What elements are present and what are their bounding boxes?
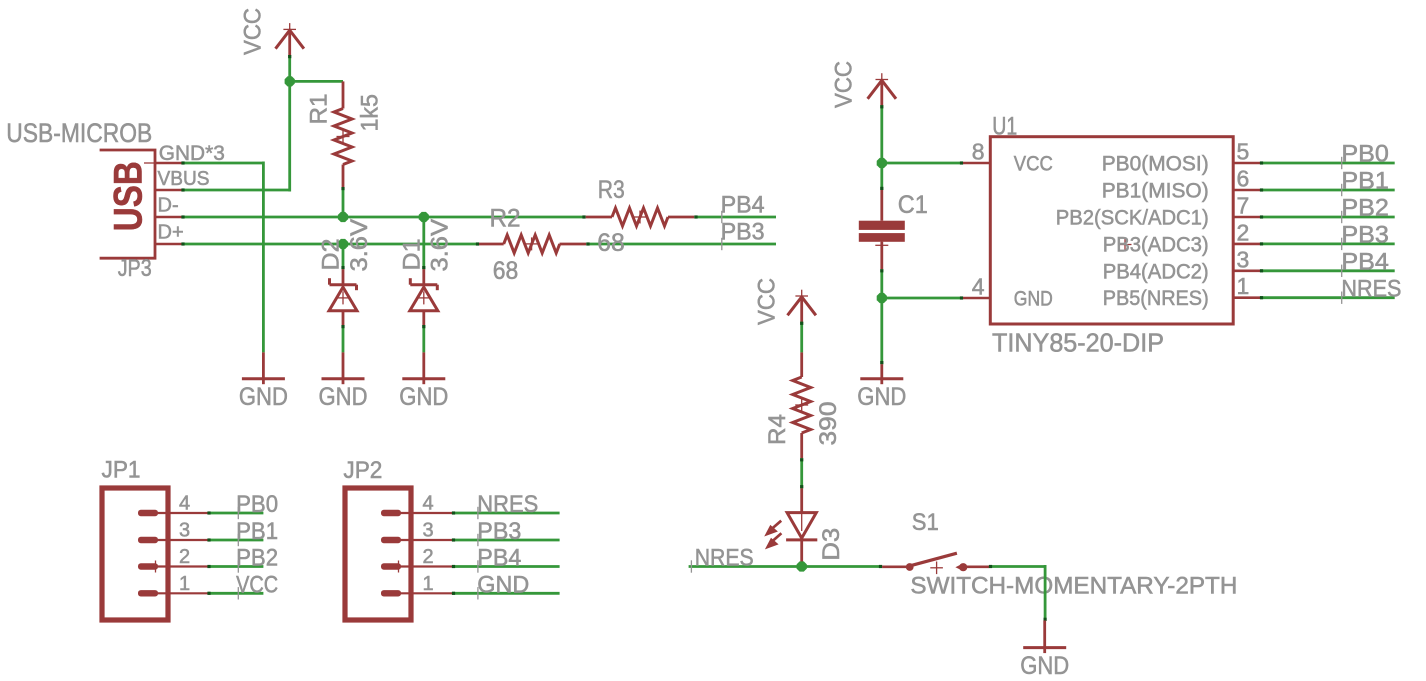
- supply VCC (above R4): [754, 278, 816, 325]
- svg-text:3: 3: [179, 520, 190, 542]
- svg-text:PB0(MOSI): PB0(MOSI): [1102, 153, 1209, 176]
- svg-text:VCC: VCC: [831, 61, 858, 108]
- label 1k5: [356, 94, 383, 132]
- U1 pin 7 stub: [1233, 193, 1260, 219]
- svg-text:D+: D+: [158, 222, 184, 244]
- JP1 pin 1: [138, 573, 208, 597]
- wire net PB3 (right): [1260, 242, 1395, 245]
- wire C1 bottom to GND: [880, 298, 883, 364]
- JP3 origin cross: [144, 162, 155, 164]
- svg-text:1k5: 1k5: [356, 94, 383, 132]
- R4 origin cross: [795, 399, 808, 412]
- U1 pin name PB0(MOSI): [1102, 153, 1209, 176]
- svg-text:PB1: PB1: [1341, 168, 1389, 195]
- label R1: [305, 94, 332, 125]
- svg-text:NRES: NRES: [477, 491, 538, 518]
- wire JP1 PB1: [207, 538, 263, 541]
- resistor R3: [586, 208, 695, 226]
- svg-text:PB3: PB3: [1341, 222, 1389, 249]
- U1 pin 5 stub: [1233, 139, 1260, 165]
- pin GND*3 of JP3: [155, 142, 225, 165]
- svg-text:USB-MICROB: USB-MICROB: [6, 118, 152, 148]
- wire C1 bottom to pin 4: [882, 296, 963, 299]
- svg-text:VCC: VCC: [754, 278, 781, 325]
- JP2 pin 4: [381, 493, 452, 517]
- svg-text:4: 4: [422, 493, 433, 515]
- net label PB2 (right): [1341, 195, 1389, 224]
- wire D+ to D2: [341, 244, 344, 269]
- svg-text:PB3: PB3: [721, 219, 765, 246]
- U1 pin 2 stub: [1233, 219, 1260, 245]
- svg-text:SWITCH-MOMENTARY-2PTH: SWITCH-MOMENTARY-2PTH: [910, 572, 1237, 599]
- svg-text:D2: D2: [317, 239, 344, 271]
- U1 origin cross: [1119, 238, 1132, 251]
- net label PB3 (JP2): [477, 518, 521, 546]
- svg-text:GND: GND: [399, 383, 448, 411]
- net label PB4 (mid): [721, 192, 765, 224]
- wire JP1 PB2: [207, 565, 263, 568]
- wire S1 to GND: [989, 565, 1047, 621]
- svg-text:4: 4: [972, 273, 985, 299]
- connector JP2 body: [343, 457, 411, 620]
- svg-text:GND: GND: [319, 383, 368, 411]
- net label NRES (JP2): [477, 491, 538, 519]
- svg-text:TINY85-20-DIP: TINY85-20-DIP: [992, 328, 1164, 358]
- svg-text:JP2: JP2: [343, 457, 382, 484]
- net label GND (JP2): [477, 572, 529, 600]
- svg-text:6: 6: [1237, 166, 1250, 192]
- svg-text:1: 1: [179, 573, 190, 595]
- diode D3 LED: [786, 488, 817, 566]
- ground GND (under GND*3): [239, 352, 288, 411]
- svg-text:1: 1: [1237, 273, 1250, 299]
- wire C1 top to pin 8: [882, 161, 963, 164]
- svg-text:GND: GND: [857, 383, 906, 411]
- svg-text:GND: GND: [477, 572, 529, 599]
- U1 pin name PB4(ADC2): [1103, 260, 1209, 283]
- node D-/R1 junction: [338, 212, 348, 222]
- U1 pin name GND: [1014, 288, 1053, 311]
- wire JP2 PB4: [452, 565, 560, 568]
- pin D- of JP3: [155, 195, 182, 217]
- label 3.6V (D1): [426, 219, 453, 272]
- svg-text:PB1: PB1: [236, 518, 278, 545]
- U1 pin 6 stub: [1233, 166, 1260, 192]
- net label PB0 (JP1): [236, 491, 278, 519]
- net label PB1 (right): [1341, 168, 1389, 197]
- node C1 bottom junction: [877, 293, 887, 303]
- wire VCC to C1 junction: [880, 105, 883, 163]
- svg-text:7: 7: [1237, 193, 1250, 219]
- net label VCC (JP1): [236, 572, 278, 600]
- wire VCC to R4: [800, 322, 803, 353]
- net label PB4 (right): [1341, 248, 1389, 277]
- capacitor C1: [859, 190, 905, 269]
- wire NRES net: [689, 565, 883, 568]
- svg-text:PB4: PB4: [1341, 248, 1389, 275]
- svg-text:5: 5: [1237, 139, 1250, 165]
- svg-text:U1: U1: [992, 113, 1017, 141]
- wire GND*3 to GND: [181, 161, 263, 352]
- svg-text:68: 68: [493, 257, 519, 285]
- JP1 pin 3: [138, 520, 208, 544]
- net label PB0 (right): [1341, 141, 1389, 170]
- svg-text:D1: D1: [399, 239, 426, 271]
- svg-text:VCC: VCC: [1014, 153, 1053, 176]
- svg-text:USB: USB: [107, 161, 151, 231]
- label D3: [818, 528, 845, 561]
- R1 origin cross: [337, 130, 350, 143]
- net label PB1 (JP1): [236, 518, 278, 546]
- label TINY85-20-DIP: [992, 328, 1164, 358]
- label JP3: [118, 255, 152, 282]
- op-amp U1 IC body TINY85: [990, 137, 1233, 324]
- label R3: [598, 176, 625, 204]
- supply VCC (top left): [239, 8, 304, 56]
- svg-text:VCC: VCC: [236, 572, 278, 599]
- net label PB3 (mid): [721, 219, 765, 251]
- R3 origin cross: [634, 211, 647, 224]
- svg-text:8: 8: [972, 139, 985, 165]
- label 3.6V (D2): [346, 219, 373, 272]
- node junction VCC/VBUS/R1: [285, 76, 295, 86]
- ground GND (under D1): [399, 352, 448, 411]
- svg-text:VBUS: VBUS: [158, 168, 210, 190]
- resistor R4: [793, 352, 811, 458]
- ground GND (under C1): [857, 364, 906, 411]
- label S1: [912, 509, 939, 536]
- connector JP3 USB-MICROB body: [100, 150, 155, 258]
- wire JP2 GND: [452, 592, 560, 595]
- wire D- to D1: [422, 217, 425, 269]
- svg-text:PB2: PB2: [236, 545, 278, 572]
- svg-text:PB5(NRES): PB5(NRES): [1103, 287, 1209, 310]
- wire net PB2 (right): [1260, 215, 1395, 218]
- label SWITCH-MOMENTARY-2PTH: [910, 572, 1237, 599]
- label R2: [490, 205, 521, 233]
- wire D+ net: [181, 242, 479, 245]
- wire D2 to GND: [341, 325, 344, 352]
- net label PB3 (right): [1341, 222, 1389, 251]
- svg-text:3: 3: [1237, 246, 1250, 272]
- U1 pin name PB1(MISO): [1102, 180, 1209, 203]
- node D3/NRES junction: [797, 561, 807, 571]
- svg-text:VCC: VCC: [239, 8, 266, 55]
- wire JP2 NRES: [452, 511, 560, 514]
- wire net NRES (right): [1260, 296, 1395, 299]
- wire C1 bottom to junction: [880, 269, 883, 298]
- svg-text:GND*3: GND*3: [159, 142, 225, 165]
- connector JP1 body: [102, 457, 169, 621]
- svg-text:D-: D-: [158, 195, 179, 217]
- label 390: [815, 402, 842, 446]
- U1 pin name PB5(NRES): [1103, 287, 1209, 310]
- label USB-MICROB: [6, 118, 152, 148]
- LED arrow 1: [764, 521, 781, 537]
- svg-text:PB1(MISO): PB1(MISO): [1102, 180, 1209, 203]
- diode D2 zener: [329, 269, 357, 325]
- JP2 pin 2: [381, 546, 452, 573]
- svg-text:D3: D3: [818, 528, 845, 561]
- node C1 top junction: [877, 158, 887, 168]
- JP1 pin 2: [138, 546, 208, 573]
- label 68 (R2): [493, 257, 519, 285]
- wire net PB4 (right): [1260, 269, 1395, 272]
- wire JP1 VCC: [207, 592, 263, 595]
- JP2 pin 3: [381, 520, 452, 544]
- svg-text:PB4: PB4: [721, 192, 765, 219]
- svg-text:JP3: JP3: [118, 255, 152, 282]
- U1 pin name PB3(ADC3): [1103, 233, 1209, 256]
- net label PB2 (JP1): [236, 545, 278, 573]
- wire R2 to PB3 label: [586, 242, 776, 245]
- svg-text:JP1: JP1: [102, 457, 141, 484]
- svg-text:NRES: NRES: [695, 545, 754, 572]
- label D1: [399, 239, 426, 271]
- LED arrow 2: [765, 533, 782, 549]
- node D+/D2 junction: [338, 239, 348, 249]
- ground GND (under D2): [319, 352, 368, 411]
- svg-text:R4: R4: [764, 414, 791, 445]
- svg-text:GND: GND: [239, 383, 288, 411]
- wire junction to R1: [290, 80, 343, 83]
- svg-text:R3: R3: [598, 176, 625, 204]
- svg-text:GND: GND: [1020, 652, 1069, 680]
- svg-text:R2: R2: [490, 205, 521, 233]
- node D-/D1 junction: [419, 212, 429, 222]
- svg-text:2: 2: [422, 546, 433, 568]
- U1 pin name PB2(SCK/ADC1): [1056, 207, 1209, 230]
- svg-text:PB3: PB3: [477, 518, 521, 545]
- svg-text:S1: S1: [912, 509, 939, 536]
- svg-text:68: 68: [597, 229, 625, 257]
- svg-text:NRES: NRES: [1341, 275, 1401, 302]
- wire JP1 PB0: [207, 511, 263, 514]
- svg-text:PB0: PB0: [236, 491, 278, 518]
- net label PB4 (JP2): [477, 545, 521, 573]
- JP1 pin 4: [138, 493, 208, 517]
- wire R4 to D3: [800, 458, 803, 488]
- U1 pin name VCC: [1014, 153, 1053, 176]
- svg-text:3.6V: 3.6V: [346, 219, 373, 272]
- resistor R2: [479, 235, 586, 253]
- JP2 pin 1: [381, 573, 452, 597]
- U1 pin 4 stub: [963, 273, 990, 299]
- label 68 (R3): [597, 229, 625, 257]
- svg-text:C1: C1: [898, 191, 928, 219]
- wire junction to C1 top: [880, 163, 883, 190]
- svg-text:PB3(ADC3): PB3(ADC3): [1103, 233, 1209, 256]
- label D2: [317, 239, 344, 271]
- label R4: [764, 414, 791, 445]
- diode D1 zener: [410, 269, 438, 325]
- svg-text:PB2(SCK/ADC1): PB2(SCK/ADC1): [1056, 207, 1209, 230]
- svg-text:PB4: PB4: [477, 545, 521, 572]
- resistor R1: [334, 81, 352, 187]
- svg-text:3.6V: 3.6V: [426, 219, 453, 272]
- U1 pin 8 stub: [963, 139, 990, 165]
- net label NRES (left): [691, 545, 753, 573]
- R2 origin cross: [525, 237, 538, 250]
- wire net PB1 (right): [1260, 188, 1395, 191]
- svg-text:GND: GND: [1014, 288, 1053, 311]
- U1 pin 1 stub: [1233, 273, 1260, 299]
- wire R1 to D- line: [341, 187, 344, 217]
- switch S1: [882, 553, 989, 574]
- wire VBUS: [181, 81, 289, 191]
- pin D+ of JP3: [155, 222, 184, 244]
- net label NRES (right): [1341, 275, 1401, 304]
- svg-text:3: 3: [422, 520, 433, 542]
- wire net PB0 (right): [1260, 161, 1395, 164]
- wire D- net: [181, 215, 585, 218]
- wire D1 to GND: [422, 325, 425, 352]
- svg-text:R1: R1: [305, 94, 332, 125]
- svg-text:PB4(ADC2): PB4(ADC2): [1103, 260, 1209, 283]
- wire R3 to PB4 label: [694, 215, 776, 218]
- svg-text:1: 1: [422, 573, 433, 595]
- pin VBUS of JP3: [155, 168, 210, 190]
- svg-text:4: 4: [179, 493, 190, 515]
- wire JP2 PB3: [452, 538, 560, 541]
- svg-text:390: 390: [815, 402, 842, 446]
- svg-text:2: 2: [179, 546, 190, 568]
- svg-text:2: 2: [1237, 219, 1250, 245]
- label U1: [992, 113, 1017, 141]
- supply VCC (above C1): [831, 61, 896, 108]
- ground GND (under S1): [1020, 621, 1069, 680]
- svg-text:PB2: PB2: [1341, 195, 1389, 222]
- U1 pin 3 stub: [1233, 246, 1260, 272]
- label C1: [898, 191, 928, 219]
- svg-text:PB0: PB0: [1341, 141, 1389, 168]
- wire VCC to junction: [288, 55, 291, 81]
